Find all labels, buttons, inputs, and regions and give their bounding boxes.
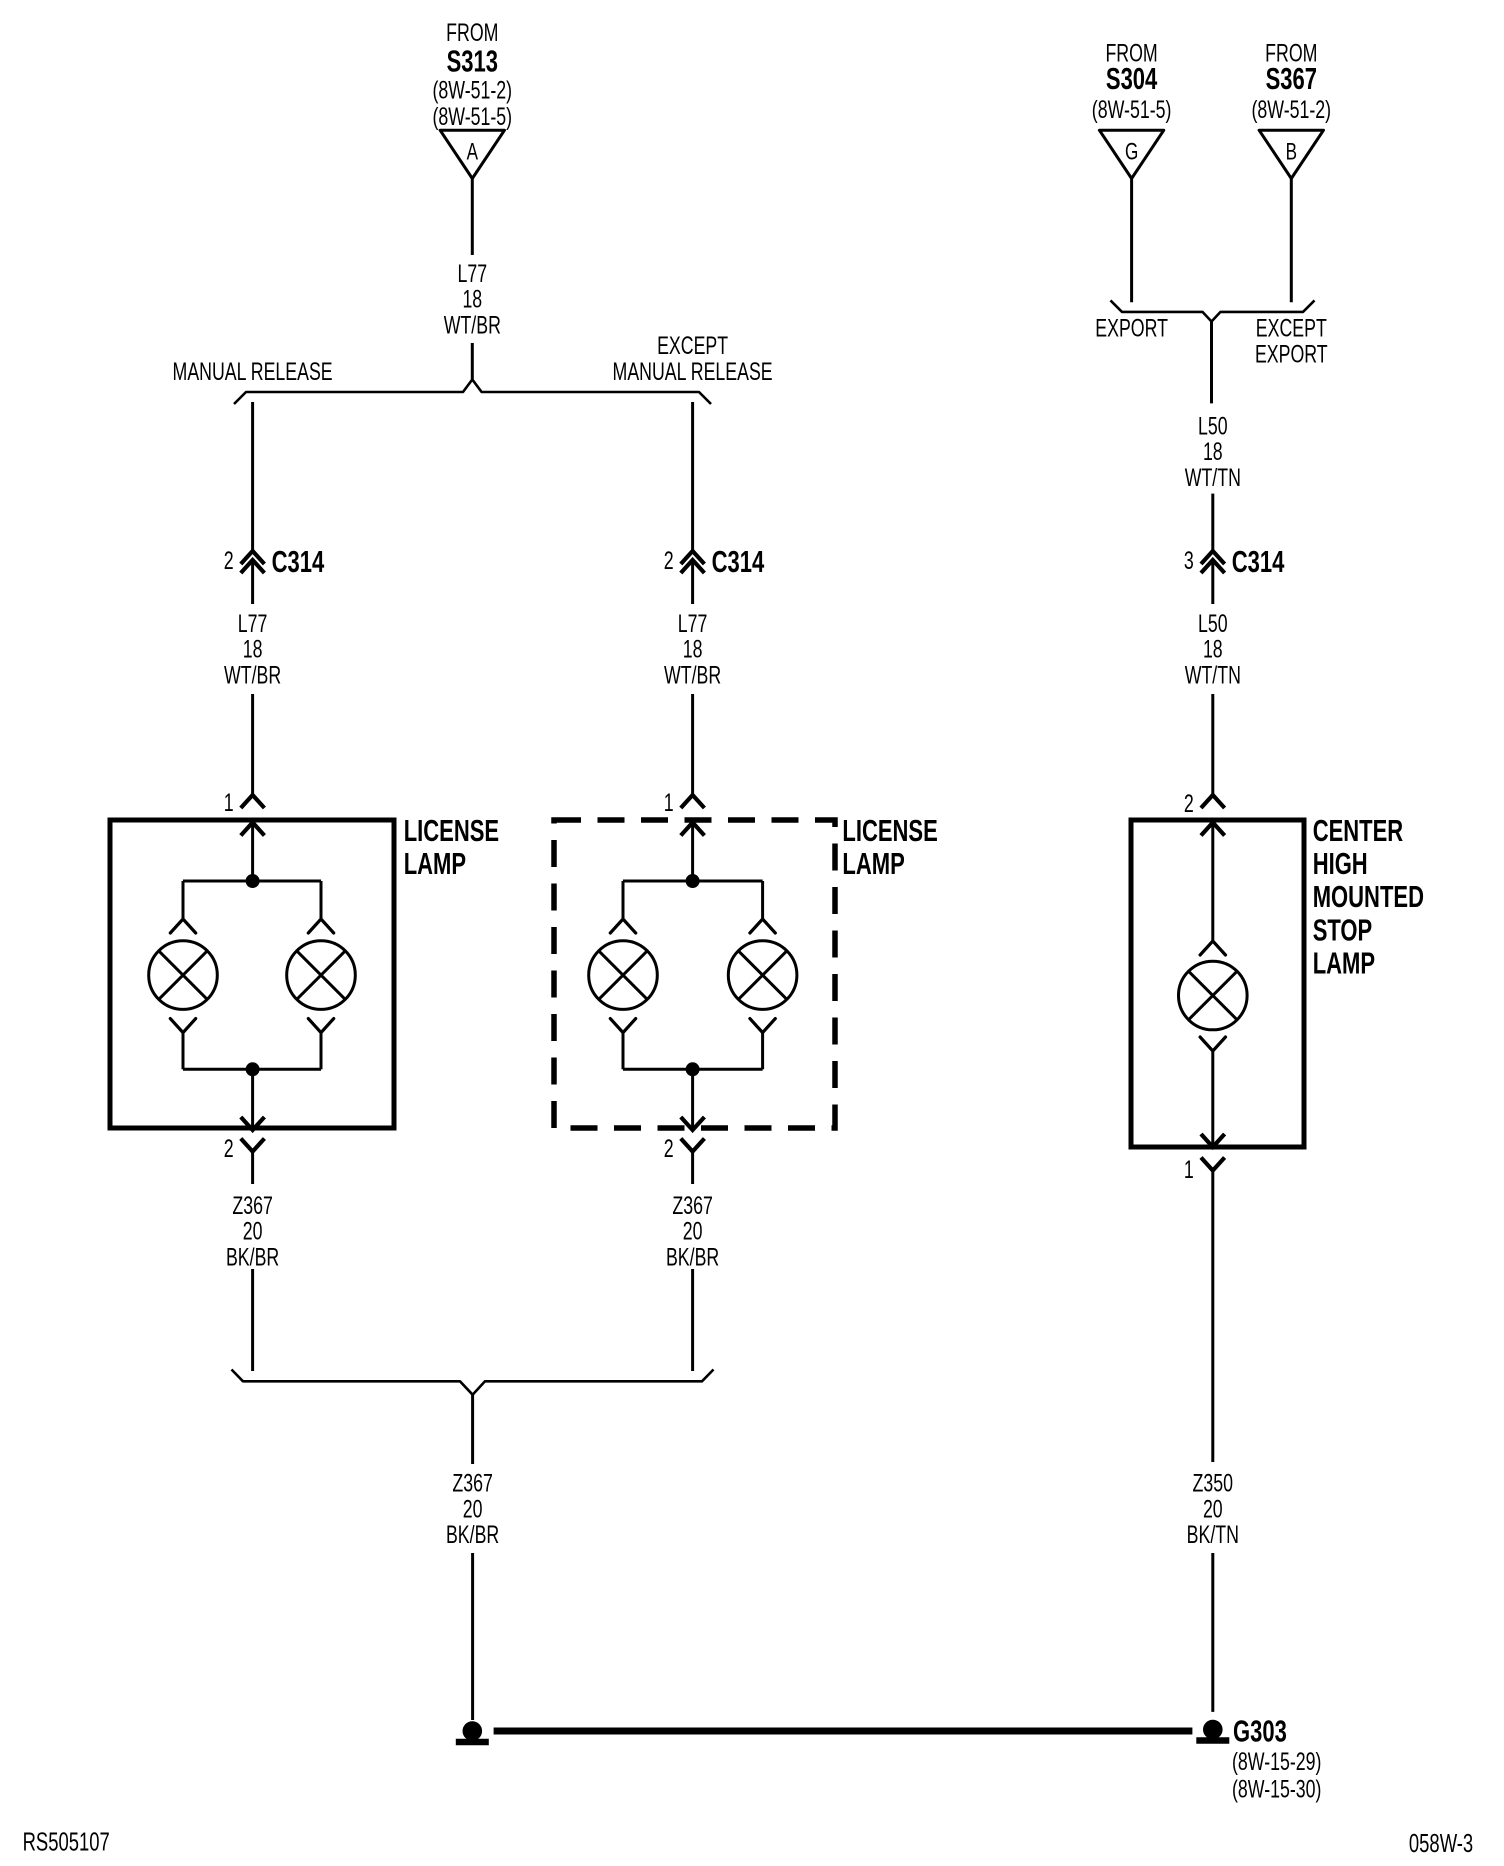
svg-text:A: A — [467, 139, 478, 166]
wire inside CHMSL — [1211, 823, 1214, 942]
svg-text:20: 20 — [243, 1218, 263, 1246]
svg-text:EXCEPT: EXCEPT — [657, 332, 728, 360]
wire lamp parallel top bar — [183, 880, 321, 883]
pin 2 internal chevron — [1201, 823, 1225, 836]
bulb 1 top contact — [170, 919, 195, 933]
svg-text:L50: L50 — [1198, 610, 1228, 638]
svg-text:EXPORT: EXPORT — [1255, 341, 1328, 369]
svg-text:(8W-51-5): (8W-51-5) — [433, 103, 513, 131]
junction (dashed lamp top) — [686, 874, 700, 888]
wire inside lamp — [251, 823, 254, 882]
bulb 1 (license lamp left) — [149, 941, 218, 1010]
svg-text:20: 20 — [1203, 1495, 1223, 1523]
svg-text:WT/TN: WT/TN — [1185, 661, 1241, 689]
svg-text:1: 1 — [224, 789, 234, 817]
bulb 1 top contact — [610, 919, 635, 933]
svg-text:2: 2 — [664, 547, 674, 575]
svg-text:S367: S367 — [1266, 61, 1317, 96]
pin 2 arrow at border — [241, 1117, 265, 1130]
wire Z367 left to merge — [251, 1269, 254, 1371]
pin 2 arrow at border — [681, 1117, 705, 1130]
junction (left lamp top) — [246, 874, 260, 888]
svg-text:2: 2 — [224, 1135, 234, 1163]
ground bus wire — [494, 1728, 1193, 1735]
pin 1 external connector (CHMSL) — [1201, 1158, 1225, 1171]
wire — [251, 560, 254, 604]
wire to pin 2 — [251, 1069, 254, 1129]
wire from bulb 2 — [761, 1033, 764, 1070]
svg-text:RS505107: RS505107 — [23, 1827, 110, 1857]
svg-text:BK/BR: BK/BR — [666, 1243, 719, 1271]
svg-text:LICENSE: LICENSE — [842, 813, 937, 848]
junction (left lamp bottom) — [246, 1062, 260, 1076]
wire L50 to C314 — [1211, 494, 1214, 551]
svg-text:2: 2 — [664, 1135, 674, 1163]
wire from bulb 1 — [182, 1033, 185, 1070]
pin 1 internal chevron — [241, 823, 265, 836]
pin 1 internal chevron — [681, 823, 705, 836]
svg-text:BK/TN: BK/TN — [1187, 1521, 1239, 1549]
bulb 1 (dashed license lamp) — [589, 941, 658, 1010]
connector C314 pin 2 (right) — [681, 551, 705, 564]
svg-text:EXPORT: EXPORT — [1095, 315, 1168, 343]
svg-text:20: 20 — [683, 1218, 703, 1246]
svg-text:18: 18 — [683, 636, 703, 664]
svg-text:18: 18 — [1203, 438, 1223, 466]
pin 1 connector arrow (dashed lamp) — [681, 795, 705, 808]
svg-text:EXCEPT: EXCEPT — [1256, 315, 1327, 343]
ground G303 (left attach) — [463, 1721, 483, 1741]
node A (from S313) — [440, 130, 504, 178]
node B (from S367) — [1259, 130, 1323, 178]
svg-text:C314: C314 — [1232, 544, 1285, 579]
svg-text:WT/BR: WT/BR — [444, 311, 501, 339]
bulb 1 bottom contact — [170, 1019, 195, 1033]
bulb 2 top contact — [750, 919, 775, 933]
wire — [691, 560, 694, 604]
wire from G — [1130, 179, 1133, 303]
wire Z367 common — [471, 1395, 474, 1464]
wire lamp parallel top bar — [623, 880, 763, 883]
svg-text:Z367: Z367 — [672, 1192, 713, 1220]
wire lamp parallel bottom bar — [623, 1068, 763, 1071]
svg-text:HIGH: HIGH — [1313, 846, 1368, 881]
svg-text:2: 2 — [224, 547, 234, 575]
svg-text:2: 2 — [1184, 790, 1194, 818]
svg-text:1: 1 — [1184, 1156, 1194, 1184]
svg-text:(8W-15-29): (8W-15-29) — [1232, 1748, 1321, 1776]
wire split brace (manual release / except manual release) — [234, 380, 711, 405]
pin 2 external connector (dashed lamp) — [681, 1139, 705, 1152]
wire L77 except manual release branch — [691, 402, 694, 551]
wire from bulb 1 — [622, 1033, 625, 1070]
svg-text:18: 18 — [243, 636, 263, 664]
wire to bulb 2 — [320, 881, 323, 919]
pin 2 external connector (left lamp) — [241, 1139, 265, 1152]
bulb (CHMSL) — [1179, 961, 1248, 1030]
svg-text:C314: C314 — [712, 544, 765, 579]
bulb 1 bottom contact — [610, 1019, 635, 1033]
wire L50 common stem — [1210, 322, 1213, 404]
svg-text:LAMP: LAMP — [842, 846, 904, 881]
svg-text:C314: C314 — [272, 544, 325, 579]
wire inside lamp — [691, 823, 694, 882]
svg-text:L77: L77 — [678, 610, 708, 638]
svg-text:L77: L77 — [458, 260, 488, 288]
wire to bulb 1 — [622, 881, 625, 919]
wire merge brace (Z367) — [232, 1370, 714, 1395]
wire L77 from A — [471, 179, 474, 256]
pin 1 connector arrow (left lamp) — [241, 795, 265, 808]
center high mounted stop lamp box — [1131, 820, 1304, 1147]
bulb 2 bottom contact — [750, 1019, 775, 1033]
connector C314 pin 2 (left) — [241, 551, 265, 564]
svg-text:WT/BR: WT/BR — [664, 661, 721, 689]
license lamp box (dashed, except manual release) — [554, 820, 835, 1128]
svg-text:G: G — [1125, 139, 1138, 166]
svg-text:BK/BR: BK/BR — [446, 1521, 499, 1549]
wire Z367 to ground — [471, 1553, 474, 1720]
wire from B — [1290, 179, 1293, 303]
svg-text:MANUAL RELEASE: MANUAL RELEASE — [613, 358, 773, 386]
wire — [1211, 560, 1214, 604]
wire L77 to split brace — [471, 343, 474, 380]
svg-text:Z367: Z367 — [452, 1470, 493, 1498]
wire to license lamp pin 1 — [251, 694, 254, 795]
bulb bottom contact — [1200, 1037, 1225, 1051]
svg-text:(8W-51-2): (8W-51-2) — [1252, 96, 1332, 124]
svg-text:LAMP: LAMP — [404, 846, 466, 881]
svg-text:S304: S304 — [1106, 61, 1158, 96]
wire Z367 right to merge — [691, 1269, 694, 1371]
license lamp box (solid) — [110, 820, 394, 1128]
wire merge bracket (export / except export) — [1111, 300, 1315, 321]
svg-text:(8W-51-2): (8W-51-2) — [433, 76, 513, 104]
svg-text:WT/TN: WT/TN — [1185, 464, 1241, 492]
svg-text:Z350: Z350 — [1193, 1470, 1234, 1498]
svg-text:L50: L50 — [1198, 412, 1228, 440]
svg-text:(8W-15-30): (8W-15-30) — [1232, 1776, 1321, 1804]
bulb 2 (license lamp left) — [287, 941, 356, 1010]
connector C314 pin 3 — [1201, 551, 1225, 564]
wire to license lamp pin 1 — [691, 694, 694, 795]
wire lamp parallel bottom bar — [183, 1068, 321, 1071]
wire to pin 2 — [691, 1069, 694, 1129]
wire to bulb 1 — [182, 881, 185, 919]
wire from bulb 2 — [320, 1033, 323, 1070]
bulb 2 top contact — [308, 919, 333, 933]
svg-text:MOUNTED: MOUNTED — [1313, 879, 1424, 914]
svg-text:STOP: STOP — [1313, 912, 1373, 947]
svg-text:18: 18 — [1203, 636, 1223, 664]
bulb 2 (dashed license lamp) — [728, 941, 797, 1010]
svg-text:20: 20 — [463, 1495, 483, 1523]
svg-text:1: 1 — [664, 789, 674, 817]
svg-text:WT/BR: WT/BR — [224, 661, 281, 689]
svg-text:B: B — [1286, 139, 1297, 166]
svg-text:3: 3 — [1184, 547, 1194, 575]
svg-text:18: 18 — [462, 286, 482, 314]
svg-text:MANUAL RELEASE: MANUAL RELEASE — [173, 358, 333, 386]
svg-text:L77: L77 — [238, 610, 268, 638]
wire Z350 to ground — [1211, 1553, 1214, 1712]
svg-text:CENTER: CENTER — [1313, 813, 1404, 848]
wire to bulb 2 — [761, 881, 764, 919]
pin 1 arrow at border — [1201, 1134, 1225, 1147]
bulb 2 bottom contact — [308, 1019, 333, 1033]
wire L77 manual release branch — [251, 402, 254, 551]
wire Z350 — [1211, 1171, 1214, 1463]
wire to pin 1 — [1211, 1051, 1214, 1146]
svg-text:(8W-51-5): (8W-51-5) — [1092, 96, 1172, 124]
bulb top contact — [1200, 941, 1225, 955]
pin 2 connector arrow (CHMSL) — [1201, 795, 1225, 808]
svg-text:G303: G303 — [1233, 1714, 1287, 1749]
svg-text:Z367: Z367 — [232, 1192, 273, 1220]
svg-text:S313: S313 — [447, 44, 498, 79]
ground G303 — [1203, 1720, 1223, 1740]
svg-text:BK/BR: BK/BR — [226, 1243, 279, 1271]
svg-text:LAMP: LAMP — [1313, 946, 1375, 981]
svg-text:LICENSE: LICENSE — [404, 813, 499, 848]
node G (from S304) — [1099, 130, 1163, 178]
junction (dashed lamp bottom) — [686, 1062, 700, 1076]
svg-text:058W-3: 058W-3 — [1409, 1828, 1473, 1858]
wire to CHMSL pin 2 — [1211, 694, 1214, 795]
